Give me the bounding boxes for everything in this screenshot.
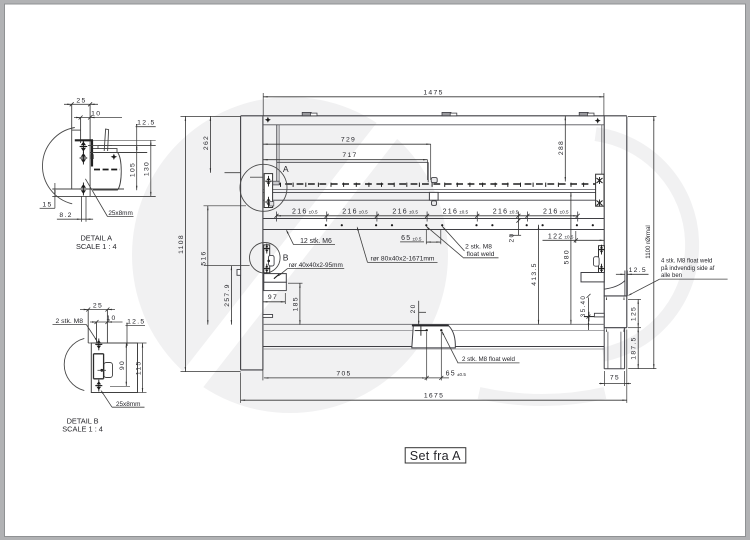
svg-text:257.9: 257.9 (224, 283, 231, 307)
svg-text:25: 25 (76, 97, 86, 104)
svg-text:12.5: 12.5 (127, 318, 145, 325)
right bracket rounded tab (594, 257, 600, 267)
right foot (604, 327, 627, 329)
right post (601, 125, 603, 177)
right leg joint line (604, 295, 628, 297)
bottom beam (263, 323, 604, 325)
detail A dim 25 (64, 103, 98, 105)
hole band tick verticals (276, 212, 278, 222)
detail A clamp body (93, 149, 121, 190)
dim 20 bottom (418, 301, 420, 325)
svg-text:10: 10 (106, 315, 116, 322)
svg-text:15: 15 (42, 202, 52, 209)
svg-text:float weld: float weld (467, 251, 495, 258)
dim 1108 (184, 116, 186, 371)
watermark left slash (169, 105, 411, 405)
svg-text:1475: 1475 (423, 89, 443, 96)
svg-text:187.5: 187.5 (631, 336, 638, 360)
bracket A gray tab (273, 181, 279, 185)
dim 516 (207, 206, 209, 325)
detail A bottom line 1 (52, 188, 124, 190)
rail right weld mark lower (597, 201, 603, 206)
bracket B lower bolt (265, 265, 269, 267)
svg-text:216: 216 (443, 208, 459, 215)
svg-text:SCALE 1 : 4: SCALE 1 : 4 (76, 242, 117, 251)
svg-text:Set fra A: Set fra A (410, 449, 461, 463)
svg-text:12.5: 12.5 (629, 267, 647, 274)
hole dots (12 stk M6) (325, 224, 327, 226)
detail A corner ext line (93, 139, 156, 141)
dim 125 (637, 299, 639, 327)
beam gusset plate (412, 326, 456, 348)
top beam lug 1 (302, 112, 311, 115)
watermark bottom arc (479, 393, 605, 400)
svg-text:20: 20 (410, 303, 417, 313)
watermark left disk (132, 97, 448, 413)
detail B bottom bolt (97, 381, 102, 384)
svg-text:2 stk. M8 float weld: 2 stk. M8 float weld (462, 356, 516, 363)
svg-text:±0.5: ±0.5 (509, 210, 518, 215)
detail A plate top line (88, 145, 156, 147)
detail B body (91, 343, 137, 393)
svg-text:216: 216 (493, 208, 509, 215)
svg-text:1675: 1675 (424, 393, 444, 400)
upper plate (277, 161, 428, 163)
left leg inner weld tab (263, 315, 273, 318)
detail A plate inner line (80, 118, 82, 144)
svg-text:717: 717 (342, 152, 357, 159)
detail B break circle (64, 338, 84, 390)
detail A star bolt (111, 154, 117, 160)
detail B slot (94, 354, 104, 379)
svg-text:216: 216 (292, 208, 308, 215)
bracket B plate (264, 245, 270, 273)
detail A plate cap (72, 129, 81, 131)
detail A thick corner weld (75, 139, 93, 141)
detail B dim 115 (142, 343, 144, 393)
callout line B (204, 265, 250, 267)
hole band (263, 218, 604, 220)
svg-text:216: 216 (342, 208, 358, 215)
watermark right ring arc (596, 134, 693, 355)
left stub weld tick (274, 274, 279, 279)
rail lower chord (263, 191, 604, 193)
svg-text:på indvendig side af: på indvendig side af (661, 265, 715, 272)
bracket B rounded tab (269, 255, 275, 266)
svg-text:2 stk. M8: 2 stk. M8 (56, 318, 84, 325)
dim 705 (264, 377, 427, 379)
beam gusset cross (415, 330, 428, 332)
top beam (241, 115, 627, 117)
svg-text:alle ben: alle ben (661, 273, 682, 279)
dim 729 (263, 143, 431, 145)
svg-text:122: 122 (548, 233, 564, 240)
detail A label 25x8mm (108, 216, 134, 218)
svg-text:1108: 1108 (178, 234, 185, 254)
rail middle clip upper (431, 178, 437, 183)
dim 257.9 (230, 266, 232, 325)
right bracket B plate (599, 246, 605, 273)
svg-text:8.2: 8.2 (59, 212, 72, 219)
detail B plate inner line (96, 322, 98, 343)
svg-text:288: 288 (558, 140, 565, 155)
svg-text:±0.5: ±0.5 (459, 210, 468, 215)
svg-text:125: 125 (631, 306, 638, 321)
dim 1475 (263, 96, 604, 98)
detail circle B (249, 242, 280, 273)
svg-text:97: 97 (268, 294, 278, 301)
detail circle A (240, 164, 287, 211)
top beam lug 2 (442, 112, 451, 115)
dim 185 (299, 283, 301, 324)
svg-text:413.5: 413.5 (531, 262, 538, 286)
svg-text:2 stk. M8: 2 stk. M8 (465, 244, 492, 251)
right leg corner arc (604, 281, 625, 290)
detail A break circle (42, 128, 74, 204)
callout line A (225, 172, 242, 174)
detail B plate right edge (106, 310, 108, 344)
svg-text:±0.5: ±0.5 (309, 210, 318, 215)
rail middle clip lower (432, 201, 437, 206)
detail A dim 130 (150, 140, 152, 196)
detail A bottom line 2 (52, 195, 155, 197)
dim 262 (209, 116, 211, 172)
dim 35.40 (588, 298, 590, 331)
svg-text:185: 185 (292, 296, 299, 311)
right foot joint arrows (606, 328, 607, 332)
detail A clamp dashed line (94, 169, 120, 171)
detail B center dot (100, 369, 103, 372)
svg-text:rør 40x40x2-95mm: rør 40x40x2-95mm (289, 262, 343, 269)
rail dashed teeth (274, 183, 604, 185)
detail A plate second line (90, 152, 147, 154)
detail B top bolt (97, 340, 102, 343)
svg-text:25x8mm: 25x8mm (116, 401, 141, 408)
detail B dim 90 (125, 343, 127, 386)
left leg (240, 116, 242, 370)
detail A plate left edge (71, 104, 73, 189)
left leg outer tab (237, 270, 241, 276)
detail A dim 8.2 (80, 196, 82, 221)
dim 413.5 (538, 225, 540, 325)
detail A clamp jaw step (97, 146, 99, 149)
svg-text:65: 65 (446, 370, 456, 377)
detail A dim 105 (136, 146, 138, 191)
svg-text:10: 10 (91, 110, 101, 117)
bracket B upper bolt (265, 245, 269, 247)
dim row 216 line (277, 215, 578, 217)
dim 580 (570, 192, 572, 324)
rail middle block (429, 192, 438, 200)
dim 1100 rormal (653, 116, 655, 368)
detail A lower bolt (81, 184, 86, 188)
svg-text:35.40: 35.40 (580, 295, 587, 318)
dim 717 (263, 159, 427, 161)
svg-text:20: 20 (508, 233, 515, 243)
view label Set fra A (405, 448, 466, 463)
detail A hole mark (91, 154, 94, 159)
dim 288 (564, 116, 566, 182)
bracket B dot (267, 260, 270, 263)
svg-text:12.5: 12.5 (137, 120, 155, 127)
right leg weld tab (594, 313, 604, 317)
svg-text:216: 216 (392, 208, 408, 215)
rail under line (263, 189, 604, 191)
svg-text:115: 115 (135, 360, 142, 375)
svg-text:±0.5: ±0.5 (409, 210, 418, 215)
svg-text:rør 80x40x2-1671mm: rør 80x40x2-1671mm (371, 256, 435, 263)
top beam bolt star right (595, 118, 601, 124)
svg-text:±0.5: ±0.5 (565, 235, 574, 240)
rail tick teeth (280, 183, 282, 187)
svg-text:105: 105 (130, 162, 137, 177)
detail A dim 15 (40, 207, 55, 209)
detail B plate left edge (87, 310, 89, 344)
rail right weld mark upper (597, 178, 603, 183)
svg-text:A: A (283, 164, 289, 174)
svg-text:65: 65 (401, 235, 411, 242)
detail B rounded tab (104, 363, 113, 378)
svg-text:±0.5: ±0.5 (560, 210, 569, 215)
bracket A lower tab (270, 202, 274, 206)
right bracket lower bolt (600, 265, 604, 267)
svg-text:±0.5: ±0.5 (457, 372, 466, 377)
svg-text:±0.5: ±0.5 (359, 210, 368, 215)
right leg plate 12.5 (624, 271, 626, 296)
bracket A plate (264, 174, 272, 208)
beam gusset hole left (426, 329, 428, 331)
dim 20 rail (517, 212, 519, 236)
rail right bracket (596, 174, 604, 206)
detail A fin (104, 129, 108, 151)
dim 187.5 (637, 328, 639, 369)
svg-text:12 stk. M6: 12 stk. M6 (300, 238, 332, 245)
top beam bolt star left (265, 117, 271, 123)
bracket A lower bolt (267, 198, 271, 201)
svg-text:SCALE 1 : 4: SCALE 1 : 4 (62, 425, 103, 434)
beam gusset weld top edge (412, 324, 449, 326)
svg-text:75: 75 (610, 375, 620, 382)
left post (276, 125, 278, 183)
svg-text:4 stk. M8 float weld: 4 stk. M8 float weld (661, 259, 712, 265)
right joint arrows (606, 296, 607, 300)
svg-text:516: 516 (200, 250, 207, 265)
svg-text:262: 262 (203, 135, 210, 150)
right bracket upper bolt (600, 246, 604, 248)
left stub tube lower (264, 282, 287, 290)
detail A dim 10 (74, 117, 122, 119)
detail A plate right edge (89, 104, 91, 196)
bracket A upper bolt (267, 177, 271, 180)
svg-text:1100 rØrmal: 1100 rØrmal (645, 225, 652, 258)
svg-text:25x8mm: 25x8mm (108, 210, 133, 217)
svg-text:90: 90 (119, 360, 126, 370)
svg-text:216: 216 (543, 208, 559, 215)
detail A dim 12.5 (136, 126, 156, 128)
svg-text:130: 130 (144, 161, 151, 176)
detail B dim 25 (80, 309, 115, 311)
right leg bolt cross (584, 316, 594, 318)
svg-text:729: 729 (341, 137, 356, 144)
right leg (603, 116, 605, 328)
beam gusset hole right (440, 329, 442, 331)
svg-text:580: 580 (563, 249, 570, 264)
svg-text:±0.5: ±0.5 (413, 236, 422, 241)
right stub tube (581, 273, 604, 282)
left stub tube (264, 274, 287, 283)
detail B dim 10 (90, 321, 123, 323)
dim 1675 (241, 399, 627, 401)
detail A upper bolt (81, 142, 86, 146)
top beam lug 3 (579, 112, 588, 115)
svg-text:705: 705 (336, 370, 351, 377)
svg-text:25: 25 (93, 303, 103, 310)
